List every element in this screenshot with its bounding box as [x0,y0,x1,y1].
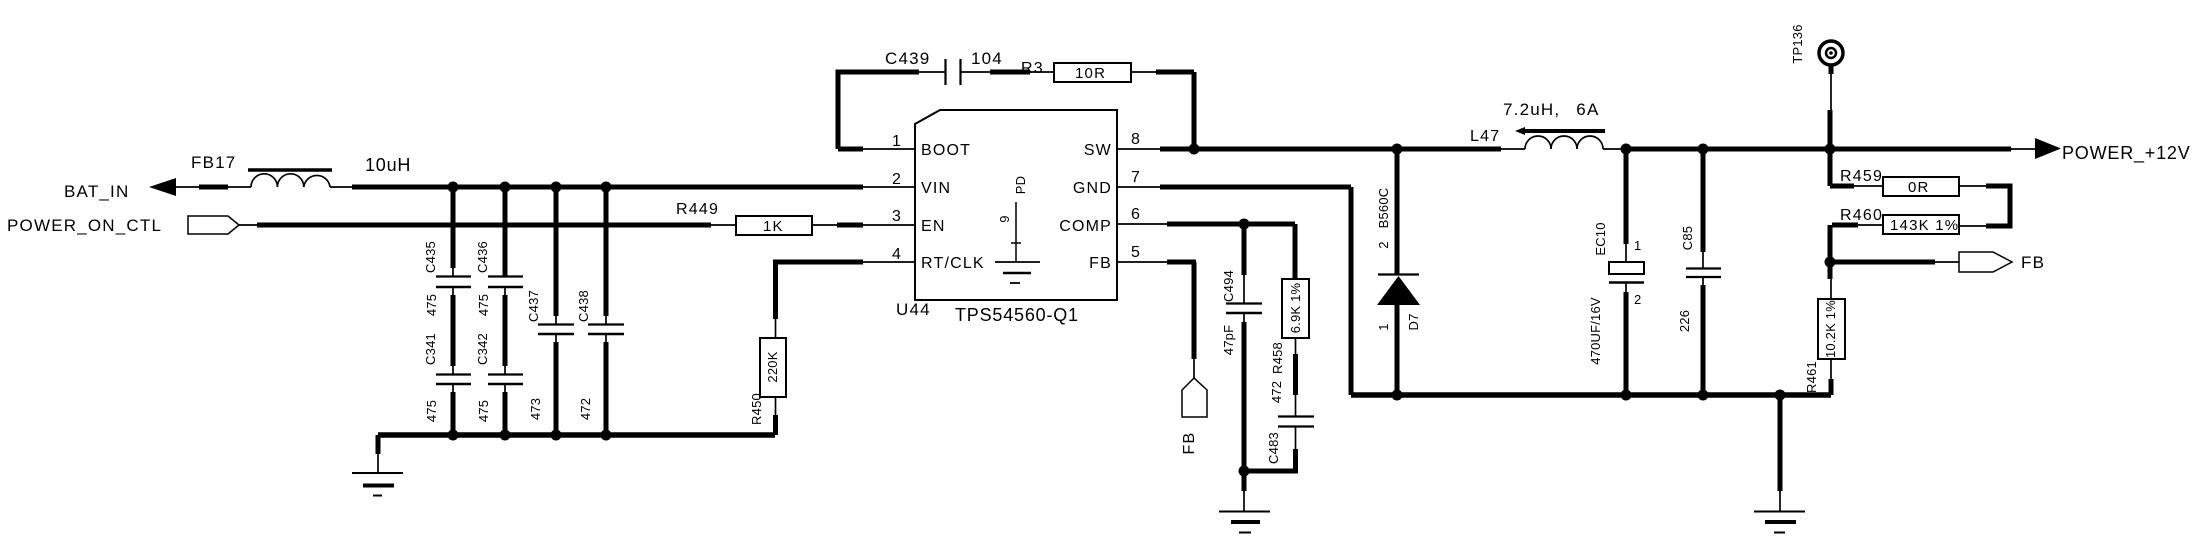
wire COMP pin 6 [1117,223,1295,225]
svg-text:TP136: TP136 [1790,24,1805,63]
ferrite bead FB17 [191,153,332,187]
net FB right tag [1830,252,2045,272]
capacitor C436 [475,187,523,316]
wire C342 to ground rail [504,384,506,435]
svg-text:L47: L47 [1470,128,1500,145]
junction GND rail x1703 [1698,390,1709,401]
net BAT_IN [64,178,176,201]
ground rail left [378,432,775,438]
junction rail x505 [500,430,511,441]
svg-text:R449: R449 [676,201,719,218]
svg-text:R450: R450 [749,393,764,425]
svg-text:C438: C438 [576,290,591,322]
net FB bottom tag [1181,378,1207,454]
svg-text:C436: C436 [475,241,490,273]
resistor R449 [676,201,812,235]
svg-text:10.2K 1%: 10.2K 1% [1823,300,1838,358]
wire R3 to SW node [1131,72,1194,149]
svg-text:SW: SW [1084,142,1112,159]
svg-text:9: 9 [997,215,1012,222]
junction VIN line x556 [551,182,562,193]
wire BOOT riser [838,72,919,149]
junction GND rail x1780 [1775,390,1786,401]
junction rail x556 [551,430,562,441]
junction x1703 [1698,144,1709,155]
svg-text:1K: 1K [763,218,784,235]
svg-text:GND: GND [1073,180,1112,197]
svg-text:C342: C342 [475,333,490,365]
svg-text:1: 1 [1634,238,1641,253]
svg-text:10R: 10R [1075,65,1106,82]
wire R449 to EN pin 3 [812,224,915,226]
svg-text:D7: D7 [1406,313,1421,330]
wire C438 to ground rail [605,334,607,435]
capacitor C483 [1244,417,1314,472]
svg-text:2: 2 [1376,241,1391,248]
svg-text:475: 475 [476,400,491,422]
svg-text:FB: FB [1089,255,1112,272]
ground return rail [1351,392,1831,398]
svg-text:C483: C483 [1266,432,1281,464]
svg-text:R458: R458 [1270,342,1285,374]
svg-text:EN: EN [921,218,946,235]
junction x1626 [1621,144,1632,155]
svg-text:143K 1%: 143K 1% [1890,217,1959,234]
svg-text:C341: C341 [423,333,438,365]
svg-text:470UF/16V: 470UF/16V [1588,297,1603,365]
resistor R450 [749,262,863,435]
pin 9 PD pad symbol [995,176,1040,283]
svg-text:7.2uH,6A: 7.2uH,6A [1503,100,1600,119]
svg-text:472: 472 [578,398,593,420]
svg-text:104: 104 [971,49,1003,68]
wire BAT_IN to FB17 [176,186,251,188]
svg-text:R461: R461 [1804,361,1819,393]
junction SW x1194 [1189,144,1200,155]
capacitor C435 [423,187,471,316]
svg-text:10uH: 10uH [365,155,411,175]
svg-text:U44: U44 [896,300,931,319]
resistor R461 [1804,262,1845,395]
svg-text:6.9K 1%: 6.9K 1% [1288,282,1303,333]
svg-text:BOOT: BOOT [921,142,971,159]
svg-text:473: 473 [528,398,543,420]
diode D7 B560C [1376,149,1421,395]
wire C435 to C341 [452,287,454,374]
capacitor C494 [1221,224,1262,471]
svg-text:COMP: COMP [1059,218,1112,235]
svg-text:0R: 0R [1908,179,1930,196]
svg-text:475: 475 [476,294,491,316]
svg-text:472: 472 [1269,381,1284,403]
resistor R459 [1830,149,1959,196]
svg-text:R460: R460 [1840,207,1883,224]
wire RT/CLK stub [863,261,915,263]
svg-text:POWER_+12V: POWER_+12V [2062,143,2191,164]
svg-text:2: 2 [1634,292,1641,307]
test point TP136 [1790,24,1843,149]
ground symbol right [1754,395,1805,533]
svg-text:C85: C85 [1680,226,1695,250]
ground symbol left [352,435,403,496]
wire C436 to C342 [504,287,506,374]
capacitor EC10 electrolytic [1588,149,1644,395]
svg-text:3: 3 [892,208,902,225]
capacitor C438 [576,187,624,420]
junction COMP x1244 [1239,219,1250,230]
wire GND pin 7 [1117,187,1351,395]
resistor R3 [1021,60,1131,82]
svg-text:POWER_ON_CTL: POWER_ON_CTL [7,216,162,235]
svg-text:475: 475 [424,294,439,316]
svg-text:C435: C435 [423,241,438,273]
wire SW pin 8 [1117,148,1501,150]
junction VIN line x453 [448,182,459,193]
svg-text:220K: 220K [765,351,780,382]
inductor L47 [1470,127,1621,149]
op-amp U44 TPS54560-Q1 [896,110,1117,325]
svg-text:VIN: VIN [921,180,951,197]
junction FB node [1825,257,1836,268]
svg-text:TPS54560-Q1: TPS54560-Q1 [955,305,1079,325]
wire FB pin 5 [1117,262,1196,378]
wire BOOT pin 1 [838,148,915,150]
junction GND rail x1397 [1392,390,1403,401]
net POWER_+12V [2011,138,2191,164]
svg-text:4: 4 [892,246,902,263]
svg-text:8: 8 [1131,131,1141,148]
svg-text:PD: PD [1013,176,1028,194]
svg-text:5: 5 [1131,244,1141,261]
junction x1830 [1825,144,1836,155]
wire C439 to R3 [961,71,1054,73]
svg-text:R3: R3 [1021,60,1044,77]
capacitor C437 [526,187,574,420]
junction SW x1397 [1392,144,1403,155]
svg-text:6: 6 [1131,206,1141,223]
resistor R458 [1269,224,1309,416]
junction COMP gnd x1244 [1239,466,1250,477]
svg-text:EC10: EC10 [1593,222,1608,255]
wire POWER_ON_CTL to R449 [239,224,736,226]
svg-text:BAT_IN: BAT_IN [64,182,129,201]
capacitor C439 [885,49,961,85]
svg-text:FB: FB [2021,253,2045,272]
resistor R460 [1830,207,1959,262]
wire C341 to ground rail [452,384,454,435]
svg-text:475: 475 [424,400,439,422]
junction rail x606 [601,430,612,441]
junction GND rail x1626 [1621,390,1632,401]
svg-text:RT/CLK: RT/CLK [921,255,985,272]
wire C437 to ground rail [555,334,557,435]
svg-text:C439: C439 [885,49,930,68]
svg-text:47pF: 47pF [1221,325,1236,355]
junction rail x453 [448,430,459,441]
capacitor C85 [1677,149,1721,395]
svg-text:B560C: B560C [1376,188,1391,229]
junction VIN line x606 [601,182,612,193]
svg-text:1: 1 [892,133,902,150]
svg-text:C437: C437 [526,290,541,322]
wire R459 to R460 [1959,186,2010,226]
junction VIN line x505 [500,182,511,193]
svg-text:2: 2 [892,171,902,188]
ground symbol middle [1219,471,1270,533]
wire L47 to POWER_+12V [1621,147,2011,152]
capacitor C342 [475,333,523,422]
net POWER_ON_CTL [7,216,239,235]
svg-text:C494: C494 [1221,270,1236,302]
capacitor C341 [423,333,471,422]
svg-text:1: 1 [1376,323,1391,330]
svg-text:7: 7 [1131,169,1141,186]
svg-text:FB: FB [1181,432,1198,455]
svg-text:226: 226 [1677,310,1692,332]
svg-text:R459: R459 [1840,168,1883,185]
svg-text:FB17: FB17 [191,153,236,172]
wire FB17 to VIN pin 2 [330,186,915,188]
